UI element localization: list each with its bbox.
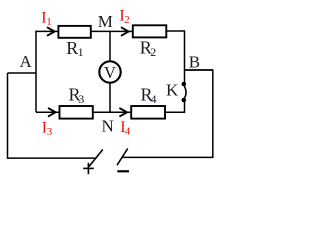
- battery positive plate: [89, 150, 103, 167]
- node M: [98, 12, 113, 31]
- wire A connector: [8, 72, 37, 74]
- battery second plate: [117, 149, 128, 166]
- wire R2 to node B: [166, 31, 184, 70]
- svg-text:2: 2: [124, 14, 130, 26]
- svg-text:M: M: [98, 12, 113, 31]
- wire bottom branch left (A corner to R3): [36, 111, 60, 113]
- wire voltmeter stem bottom: [109, 83, 111, 113]
- resistor R1: [58, 26, 90, 38]
- current arrow I1: [47, 27, 55, 36]
- svg-text:3: 3: [47, 126, 53, 138]
- node B: [189, 53, 200, 72]
- wire left rail: [8, 73, 96, 158]
- label R3: [69, 85, 85, 107]
- wire voltmeter stem top: [109, 31, 111, 61]
- current arrow I3: [48, 108, 56, 117]
- wire top branch left (A corner to R1): [36, 31, 58, 112]
- wire bottom right run and right rail: [122, 70, 212, 157]
- resistor R2: [133, 25, 167, 37]
- battery + terminal mark: [83, 163, 94, 174]
- wire switch to R4: [165, 100, 185, 112]
- svg-text:1: 1: [46, 16, 52, 28]
- svg-text:1: 1: [78, 45, 84, 59]
- svg-text:4: 4: [151, 92, 157, 106]
- resistor R4: [131, 106, 165, 119]
- node N: [102, 116, 114, 135]
- svg-text:K: K: [166, 81, 179, 100]
- label I1: [41, 10, 52, 29]
- wire N segment (R3 to R4): [93, 111, 131, 113]
- label I3: [42, 120, 53, 139]
- voltmeter V: [99, 61, 120, 82]
- label R1: [66, 38, 83, 59]
- switch K: [182, 82, 187, 103]
- wire B down to switch: [184, 70, 186, 84]
- wire B connector to right rail: [185, 69, 214, 71]
- svg-text:A: A: [20, 52, 33, 71]
- svg-text:4: 4: [125, 126, 131, 138]
- svg-text:2: 2: [150, 45, 156, 59]
- battery negative short plate: [117, 170, 129, 172]
- wire M segment (R1 to R2): [91, 30, 133, 32]
- label K: [166, 81, 179, 100]
- current arrow I4: [119, 108, 127, 117]
- label I4: [120, 119, 131, 138]
- svg-text:V: V: [104, 63, 116, 82]
- current arrow I2: [121, 27, 129, 36]
- svg-text:N: N: [102, 116, 114, 135]
- node A: [20, 52, 33, 71]
- label R2: [140, 38, 156, 60]
- svg-text:B: B: [189, 53, 200, 72]
- svg-text:3: 3: [78, 92, 84, 106]
- resistor R3: [60, 106, 93, 119]
- label R4: [141, 85, 157, 107]
- label I2: [119, 7, 129, 26]
- svg-text:R: R: [66, 38, 78, 58]
